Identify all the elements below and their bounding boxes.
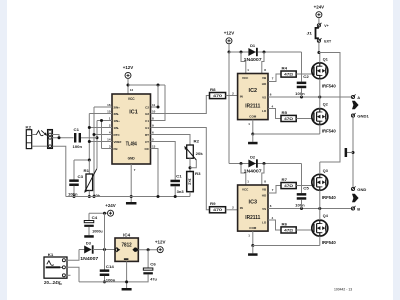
ground symbol rotated — [345, 148, 348, 157]
op-amp U3 gate driver IC3 IR2111 box — [238, 185, 268, 231]
diode D3 1N4007 input — [84, 246, 92, 254]
node FB/1IN+ — [100, 119, 103, 122]
svg-text:VREF: VREF — [114, 140, 122, 144]
wire K2 sleeve to ground — [32, 145, 48, 147]
resistor R5 47R gate — [281, 115, 296, 121]
K1 barrel bar — [46, 266, 61, 268]
wire R7 to Q3 gate — [296, 185, 313, 187]
svg-text:RT: RT — [145, 133, 149, 137]
wire RT row to pot R2 — [151, 135, 191, 146]
svg-text:47u: 47u — [150, 278, 157, 282]
svg-text:C4: C4 — [92, 216, 98, 220]
wire R4 to Q1 gate — [296, 73, 313, 75]
svg-text:K2: K2 — [26, 125, 32, 130]
IC4 output arrow — [132, 248, 138, 252]
wire Q4 drain — [319, 209, 321, 221]
wire VREF bus vertical — [88, 114, 90, 161]
svg-text:13: 13 — [152, 144, 156, 148]
wire Q1 source to VS — [319, 79, 321, 97]
node +12V branch — [228, 51, 231, 54]
svg-text:D2: D2 — [250, 154, 256, 159]
svg-text:C1: C1 — [74, 128, 80, 132]
svg-text:HO: HO — [262, 194, 267, 198]
node C3 rail — [73, 195, 76, 198]
svg-text:J1: J1 — [307, 31, 313, 35]
resistor R9 470 — [210, 207, 226, 213]
K1 contact middle — [62, 266, 65, 269]
svg-text:C3: C3 — [78, 175, 84, 179]
node +24V junction — [103, 248, 106, 251]
svg-text:IRF540: IRF540 — [322, 240, 336, 246]
svg-text:CT: CT — [145, 140, 149, 144]
wire VB/VCC row D2 — [229, 163, 302, 165]
svg-text:C2: C2 — [303, 75, 309, 79]
capacitor C1 input 100n — [74, 133, 81, 143]
node C7 rail — [174, 195, 177, 198]
svg-text:C1: C1 — [145, 119, 149, 123]
node R1 rail — [88, 195, 91, 198]
svg-text:47Ω: 47Ω — [284, 72, 293, 76]
wire R8 to IC2 IN — [226, 95, 238, 97]
wire C3 to rail — [73, 186, 75, 197]
ground symbol IC4 — [122, 288, 132, 291]
wire to pin 8 C1 — [151, 85, 166, 121]
svg-text:47Ω: 47Ω — [284, 228, 293, 232]
svg-text:COM: COM — [249, 114, 257, 118]
wire +12V vertical to D2 row — [228, 52, 230, 164]
wire K1 plus to D3 — [65, 250, 79, 261]
svg-text:7: 7 — [272, 188, 274, 192]
svg-text:6: 6 — [270, 204, 272, 208]
wire IC1 pin 3 FB — [102, 148, 113, 150]
capacitor C4 1000u electrolytic — [84, 221, 94, 223]
jack contact middle — [49, 136, 52, 139]
wire Q3 source to VS — [319, 190, 321, 208]
resistor R3 1k2 vertical — [187, 172, 194, 192]
wire COM ground lead — [252, 134, 254, 142]
jack contact bottom — [49, 145, 52, 148]
capacitor C5 bootstrap lead — [301, 164, 303, 194]
terminal B — [351, 207, 354, 210]
node +24V bridge — [317, 51, 320, 54]
jumper J1 bracket — [316, 28, 319, 38]
node VCC side D1 — [240, 51, 243, 54]
wire jack middle contact signal — [51, 137, 73, 139]
transistor Q3 IRF540 — [312, 174, 328, 190]
connector K1 DC input box — [44, 257, 67, 278]
svg-text:20k: 20k — [196, 152, 204, 156]
node signal junction — [96, 136, 99, 139]
node on ground rail x94 — [93, 195, 96, 198]
transistor Q2 IRF540 — [312, 109, 328, 125]
capacitor C6 47u electrolytic — [143, 268, 153, 270]
wire COM rail to Q4 source — [253, 245, 320, 247]
svg-text:R1: R1 — [84, 169, 90, 173]
svg-text:+12V: +12V — [224, 31, 235, 36]
wire OC pin 13 to rail — [151, 149, 159, 197]
svg-text:IN: IN — [240, 206, 243, 210]
wire CT row to C7 — [151, 142, 176, 180]
wire IC1 pin 16 2IN+ — [94, 106, 112, 108]
wire IC1 pin 1 1IN+ — [97, 120, 112, 122]
transistor Q1 IRF540 — [312, 63, 328, 79]
svg-text:Q1: Q1 — [323, 56, 329, 61]
svg-text:IC4: IC4 — [123, 233, 131, 238]
svg-text:1000u: 1000u — [92, 229, 103, 233]
svg-text:+12V: +12V — [123, 65, 134, 70]
svg-text:C5: C5 — [303, 186, 309, 190]
node C14 rail — [103, 280, 106, 283]
wire HO pin 7 to R7 — [268, 186, 281, 194]
svg-text:DC: DC — [59, 284, 63, 286]
node VREF on 1IN- row — [88, 126, 91, 129]
capacitor C3 100n — [69, 179, 79, 182]
wire +24V tap down — [104, 213, 106, 249]
wire 2IN+/DTC ground vertical — [93, 107, 95, 197]
node jack signal junction — [58, 136, 61, 139]
power +24V supply symbol PSU — [108, 210, 114, 216]
node pin 11 — [157, 106, 160, 109]
svg-text:R7: R7 — [282, 178, 288, 182]
power +12V supply symbol (IC1) — [125, 72, 131, 78]
wire IC1 pin 14 VREF — [89, 141, 112, 143]
svg-text:R2: R2 — [194, 140, 200, 144]
svg-text:8: 8 — [264, 180, 266, 184]
svg-text:IR2111: IR2111 — [245, 103, 260, 109]
node C2/C1 branch — [157, 84, 160, 87]
svg-text:100n: 100n — [295, 204, 305, 208]
terminal GND lower — [351, 187, 354, 190]
diode D2 1N4007 bootstrap — [248, 160, 256, 168]
svg-text:2IN+: 2IN+ — [114, 105, 121, 109]
wire R1 to rail — [88, 191, 90, 197]
wire R3 to rail — [189, 192, 191, 197]
svg-text:2: 2 — [109, 123, 111, 127]
svg-text:V+: V+ — [324, 24, 328, 28]
wire C5 to VS — [301, 200, 303, 209]
svg-text:DTC: DTC — [114, 133, 121, 137]
K1 tip contact symbol — [47, 261, 54, 266]
svg-text:C1: C1 — [176, 174, 182, 178]
svg-text:14: 14 — [107, 137, 111, 141]
K1 contact bottom — [62, 274, 65, 277]
svg-text:11: 11 — [152, 103, 156, 107]
resistor R8 470 — [210, 93, 226, 99]
ground symbol C4 — [84, 235, 94, 238]
svg-text:R4: R4 — [282, 67, 288, 71]
svg-text:12: 12 — [130, 88, 134, 92]
svg-text:9: 9 — [152, 123, 154, 127]
wire COM pin 1 down — [252, 120, 254, 134]
wire R9 to IC3 IN — [226, 209, 238, 211]
jack plug tip symbol — [36, 131, 43, 136]
wire LO pin 4 to R5 — [268, 109, 281, 119]
svg-text:E1: E1 — [145, 126, 149, 130]
ground symbol below IC1 — [126, 202, 137, 205]
svg-text:1: 1 — [247, 180, 249, 184]
wire C2 to VS — [301, 88, 303, 97]
svg-text:100n: 100n — [73, 145, 83, 149]
svg-text:+12V: +12V — [155, 240, 166, 245]
svg-text:8: 8 — [264, 68, 266, 72]
wire C1 to signal node — [81, 137, 97, 139]
wire +12V branch to output collectors — [128, 84, 165, 86]
wire COM rail to Q2 source — [253, 133, 320, 135]
node pot top — [88, 159, 91, 162]
wire GND1 to GND vertical — [352, 117, 354, 187]
svg-text:1N4007: 1N4007 — [80, 256, 98, 261]
wire VB/VCC row D1 — [229, 51, 302, 53]
wire IC1 pin 15 2IN- — [89, 113, 112, 115]
svg-text:D3: D3 — [86, 241, 92, 246]
motor arrow upper — [352, 101, 359, 109]
svg-text:16: 16 — [107, 103, 111, 107]
svg-text:100n: 100n — [295, 92, 305, 96]
svg-text:8: 8 — [152, 116, 154, 120]
svg-text:+24V: +24V — [105, 203, 116, 208]
wire IC1 pin 7 GND lead — [130, 164, 132, 202]
capacitor C2 bootstrap lead — [301, 52, 303, 82]
wire VS line to terminal A — [268, 96, 351, 98]
capacitor C14 100n lead — [104, 250, 106, 270]
svg-text:IC1: IC1 — [129, 110, 138, 116]
wire C3 lead down — [73, 160, 75, 180]
resistor R4 47R gate — [281, 71, 296, 77]
wire VCC pin 1 lead IC3 — [241, 164, 246, 186]
node VCC side D2 — [240, 162, 243, 165]
power +12V supply symbol (drivers) — [226, 38, 232, 44]
svg-text:GND1: GND1 — [357, 113, 369, 118]
wire Q3 drain — [319, 162, 321, 174]
svg-text:4: 4 — [272, 216, 274, 220]
terminal EXT — [317, 39, 320, 42]
wire Q2 source — [319, 125, 321, 134]
node DTC row — [93, 133, 96, 136]
svg-text:47Ω: 47Ω — [284, 184, 293, 188]
svg-text:IN: IN — [240, 94, 243, 98]
svg-text:IC3: IC3 — [249, 199, 258, 205]
svg-text:1: 1 — [248, 233, 250, 237]
wire jack bottom contact to ground rail — [53, 146, 66, 196]
node C5 on VS — [300, 207, 303, 210]
svg-text:IC2: IC2 — [249, 88, 258, 94]
wire Q2 drain — [319, 97, 321, 109]
svg-text:3: 3 — [109, 144, 111, 148]
wire wiper hook — [190, 160, 196, 168]
svg-text:IRF540: IRF540 — [322, 129, 336, 135]
capacitor C2 100n bootstrap — [297, 82, 307, 85]
node C2 on VS — [300, 96, 303, 99]
svg-text:1: 1 — [109, 116, 111, 120]
svg-text:Q3: Q3 — [323, 168, 329, 173]
wire C6 lead — [147, 250, 149, 268]
node COM ground junction — [251, 133, 254, 136]
svg-text:A: A — [357, 95, 360, 100]
wire Q1 drain — [319, 53, 321, 63]
svg-text:LO: LO — [262, 220, 267, 224]
svg-text:1: 1 — [248, 122, 250, 126]
ground symbol IC2 COM — [248, 142, 257, 145]
svg-text:3n3: 3n3 — [177, 190, 184, 194]
wire jack top contact to signal — [51, 135, 59, 138]
svg-text:B: B — [357, 206, 360, 211]
right page margin strip — [393, 0, 400, 300]
transistor Q4 IRF540 — [312, 220, 328, 236]
wire wiper vertical to signal — [96, 121, 98, 169]
node Q1 source Q2 drain — [318, 96, 321, 99]
wire R6 to Q4 gate — [296, 229, 313, 231]
wire C4 to ground — [88, 227, 90, 235]
op-amp U1 PWM controller IC1 TL494 box — [112, 94, 151, 164]
wire to pin 11 C2 — [151, 85, 159, 107]
svg-text:D1: D1 — [250, 43, 256, 48]
wire HO pin 7 to R4 — [268, 74, 281, 82]
svg-text:R5: R5 — [282, 111, 288, 115]
wire K1 switch stub — [65, 274, 70, 276]
terminal GND1 — [351, 114, 354, 117]
wire IC1 pin 4 DTC — [94, 134, 112, 136]
voltage regulator IC4 7812 box — [115, 238, 138, 261]
svg-text:E2: E2 — [145, 112, 149, 116]
terminal V+ — [317, 24, 320, 27]
svg-text:HO: HO — [262, 82, 267, 86]
svg-text:R9: R9 — [210, 202, 216, 206]
power +12V supply symbol PSU out — [157, 247, 163, 253]
wire IC4 output — [138, 249, 157, 251]
potentiometer R1 20k — [88, 160, 90, 174]
node GND pin on rail — [130, 195, 133, 198]
capacitor C14 100n — [100, 269, 110, 272]
svg-text:10: 10 — [152, 109, 156, 113]
potentiometer R2 20k — [187, 145, 194, 158]
wire Q4 source — [319, 236, 321, 245]
wire ground stub — [347, 152, 353, 154]
svg-text:COM: COM — [249, 226, 257, 230]
svg-text:+24V: +24V — [314, 5, 325, 10]
node C6 tap — [147, 248, 150, 251]
node IC4 ground rail — [125, 280, 128, 283]
node VB side D2 — [263, 162, 266, 165]
svg-text:7812: 7812 — [121, 242, 132, 248]
resistor R7 47R gate — [281, 183, 296, 189]
capacitor C5 100n bootstrap — [297, 193, 307, 196]
svg-text:470: 470 — [213, 94, 222, 98]
svg-text:VCC: VCC — [242, 76, 249, 80]
wire VB pin 8 lead — [262, 52, 264, 74]
svg-text:47Ω: 47Ω — [284, 117, 293, 121]
svg-text:VCC: VCC — [128, 97, 135, 101]
node ground tie — [352, 151, 355, 154]
ground symbol IC3 COM — [248, 253, 257, 256]
wire C6 to rail corner — [79, 274, 148, 282]
node OC rail — [157, 195, 160, 198]
ground rail IC1 section — [66, 196, 190, 198]
svg-text:1IN+: 1IN+ — [114, 119, 121, 123]
wire D3 cathode to IC4 — [93, 249, 115, 251]
svg-text:1N4007: 1N4007 — [244, 169, 262, 174]
node R2 wiper junction — [189, 166, 192, 169]
wire VCC lead IC1 pin 12 — [127, 79, 129, 95]
node on VCC lead — [127, 84, 130, 87]
svg-text:100442 - 13: 100442 - 13 — [334, 288, 352, 292]
svg-text:Q4: Q4 — [323, 213, 329, 218]
svg-text:GND: GND — [357, 187, 366, 192]
svg-text:IRF540: IRF540 — [322, 84, 336, 90]
wire R5 to Q2 gate — [296, 118, 313, 120]
wire COM pin 1 down IC3 — [252, 231, 254, 245]
wire EXT down to bridge node — [318, 42, 320, 52]
wire K1 minus to ground rail — [65, 267, 79, 282]
wire E1 output to R9 — [151, 128, 210, 210]
wire D3 anode — [79, 249, 85, 251]
power +24V supply symbol top — [316, 12, 322, 18]
wire VS line to terminal B — [268, 208, 351, 210]
wire +24V feed to lower bridge — [319, 53, 340, 163]
svg-text:R6: R6 — [282, 222, 288, 226]
svg-text:R3: R3 — [195, 172, 201, 176]
svg-text:C2: C2 — [145, 105, 149, 109]
svg-text:TL494: TL494 — [126, 141, 138, 147]
svg-text:2IN-: 2IN- — [114, 112, 120, 116]
wire IC1 pin 2 1IN- — [89, 127, 112, 129]
wire VB pin 8 lead IC3 — [262, 164, 264, 186]
wire E2 output to R8 — [151, 96, 210, 114]
wire +24V horizontal — [89, 212, 107, 214]
svg-text:VS: VS — [262, 96, 266, 100]
svg-text:C6: C6 — [150, 262, 156, 266]
svg-text:1N4007: 1N4007 — [244, 57, 262, 62]
wire K2 tip stub — [32, 134, 36, 136]
wire C7 to rail — [174, 186, 176, 196]
svg-text:4: 4 — [272, 105, 274, 109]
wire LO pin 4 to R6 — [268, 220, 281, 230]
node VB side D1 — [263, 51, 266, 54]
wire COM ground lead IC3 — [252, 246, 254, 254]
svg-text:4: 4 — [109, 130, 111, 134]
svg-text:1IN-: 1IN- — [114, 126, 120, 130]
IC4 ground tab — [124, 258, 128, 260]
wire C4 lead — [88, 213, 90, 220]
svg-text:LO: LO — [262, 109, 267, 113]
node Q3 source Q4 drain — [318, 207, 321, 210]
wire +12V down to D1 row — [228, 44, 230, 52]
svg-text:R8: R8 — [210, 88, 216, 92]
svg-text:Q2: Q2 — [323, 102, 329, 107]
wire C14 to rail — [104, 276, 106, 282]
svg-text:6: 6 — [152, 130, 154, 134]
diode D1 1N4007 bootstrap — [248, 48, 256, 56]
wire R2 to R3 — [189, 158, 191, 171]
jack plug arrow — [41, 130, 46, 135]
resistor R6 47R gate — [281, 227, 296, 233]
wire IC4 ground lead — [126, 261, 128, 288]
svg-text:IR2111: IR2111 — [245, 215, 260, 221]
wire FB to 1IN+ vertical — [101, 121, 103, 149]
node +24V tap — [103, 212, 106, 215]
svg-text:7: 7 — [272, 76, 274, 80]
svg-text:VS: VS — [262, 207, 266, 211]
wire +24V to V+ terminal — [318, 18, 320, 24]
svg-text:2: 2 — [232, 206, 234, 210]
wire VCC pin 1 lead — [241, 52, 246, 74]
IC4 input arrow — [115, 248, 119, 252]
node COM ground junction IC3 — [251, 244, 254, 247]
svg-text:IRF540: IRF540 — [322, 195, 336, 201]
svg-text:15: 15 — [107, 109, 111, 113]
left page margin strip — [0, 0, 7, 300]
node VREF on pin14 row — [88, 140, 91, 143]
svg-text:1: 1 — [247, 68, 249, 72]
